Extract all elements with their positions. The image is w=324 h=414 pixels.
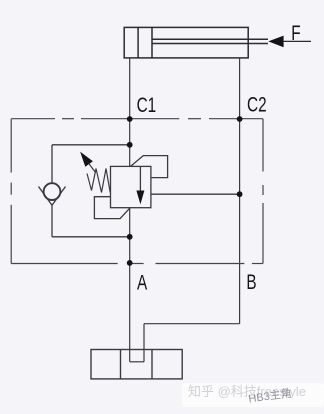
svg-text:B: B [246, 269, 256, 293]
svg-text:C1: C1 [137, 93, 157, 117]
svg-text:C2: C2 [247, 92, 267, 116]
svg-text:A: A [137, 270, 148, 294]
svg-text:F: F [291, 20, 300, 44]
